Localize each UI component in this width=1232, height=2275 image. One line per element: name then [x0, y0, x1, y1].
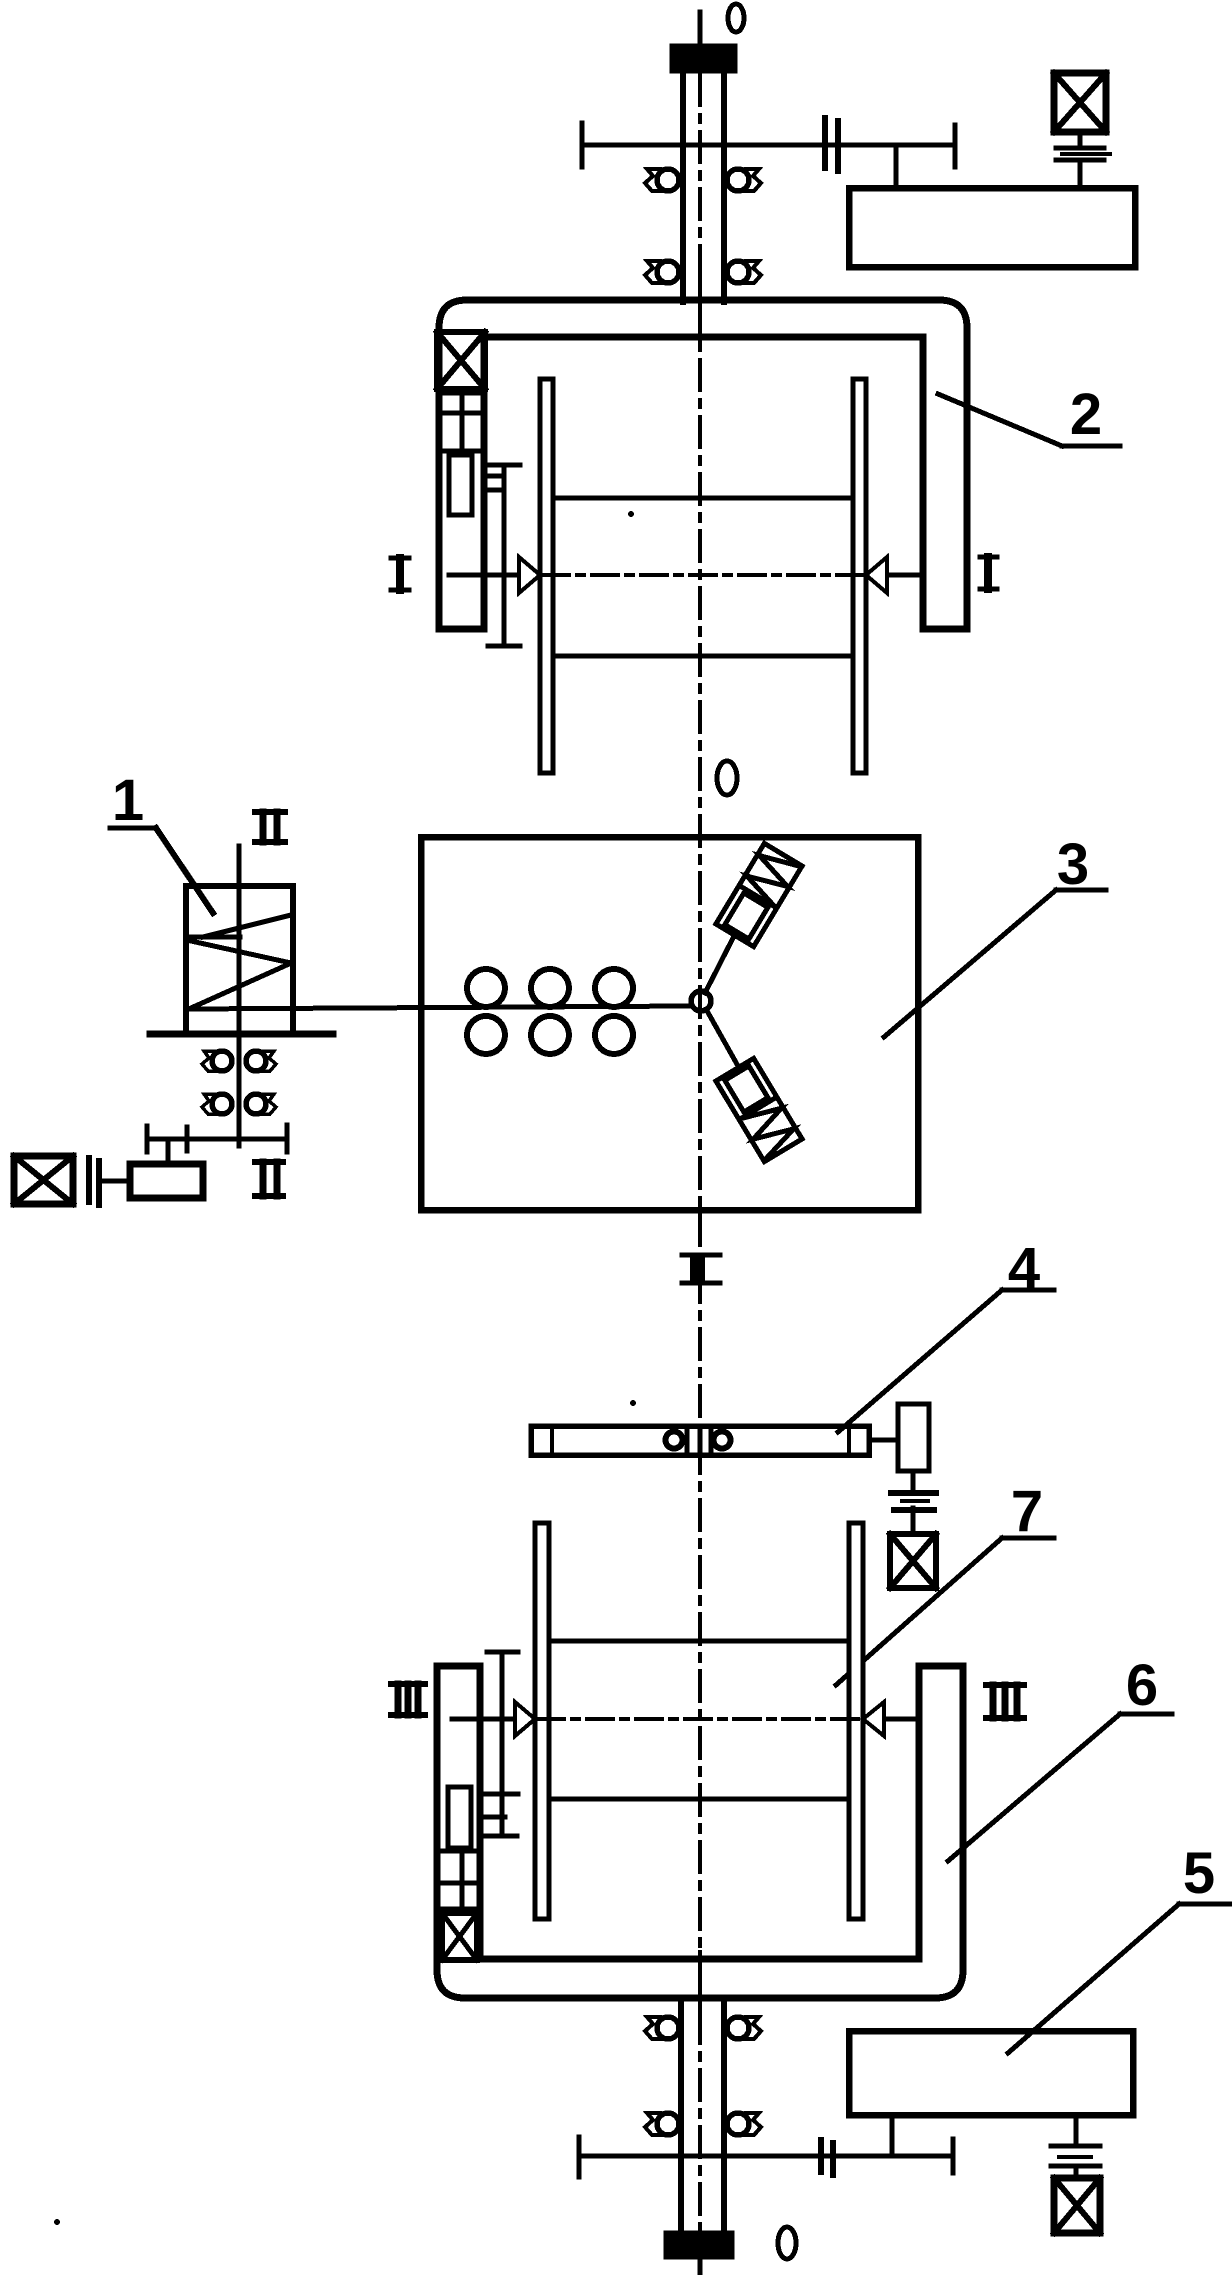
- svg-text:7: 7: [1011, 1479, 1043, 1544]
- svg-text:1: 1: [112, 768, 144, 833]
- svg-text:4: 4: [1008, 1236, 1040, 1301]
- svg-text:3: 3: [1057, 832, 1089, 897]
- svg-text:2: 2: [1070, 382, 1102, 447]
- svg-text:5: 5: [1183, 1841, 1215, 1906]
- svg-text:6: 6: [1126, 1653, 1158, 1718]
